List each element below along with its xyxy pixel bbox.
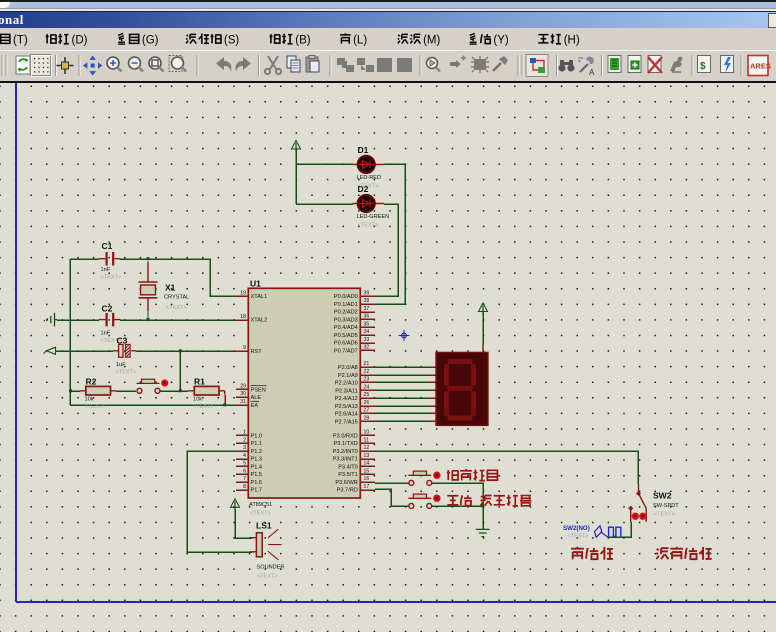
U1 right pin stubs	[360, 296, 375, 490]
pulse generator SW2(NO)	[595, 526, 621, 538]
svg-text:30: 30	[240, 391, 246, 397]
svg-text:29: 29	[240, 383, 246, 389]
wire key1 to ground rail	[432, 483, 483, 529]
svg-text:14: 14	[364, 461, 370, 467]
menu item (S)	[186, 33, 221, 44]
push button (reset)	[137, 379, 160, 393]
D1 TEXT placeholder	[358, 183, 379, 189]
wire SW2 NO throw to pulse source	[608, 522, 631, 537]
svg-text:P1.1: P1.1	[251, 441, 263, 447]
svg-text:P3.3/INT1: P3.3/INT1	[333, 457, 358, 463]
value R2 10k	[85, 397, 94, 403]
svg-text:P3.2/INT0: P3.2/INT0	[333, 449, 358, 455]
tool: zoom area	[149, 57, 164, 72]
LED D1	[353, 156, 385, 173]
svg-text:19: 19	[240, 290, 246, 296]
wire P1.2 to sounder bottom	[187, 451, 252, 552]
tool: decompose	[493, 56, 508, 71]
svg-text:25: 25	[364, 392, 370, 398]
wire key2 to ground rail	[432, 505, 483, 507]
svg-text:SW2(NO): SW2(NO)	[563, 525, 590, 532]
SW2(NO) TEXT placeholder	[568, 534, 589, 540]
tool: packaging	[471, 56, 489, 73]
tool: block delete	[397, 58, 412, 72]
svg-text:P2.0/A8: P2.0/A8	[338, 365, 358, 371]
label SW2(NO)	[563, 525, 590, 532]
capacitor C2	[99, 313, 121, 327]
svg-text:U1: U1	[250, 279, 261, 289]
junction reset row	[179, 389, 182, 392]
wire VCC to D2 anode	[296, 203, 353, 205]
svg-text:P3.1/TXD: P3.1/TXD	[334, 441, 358, 447]
tool: block move	[357, 58, 374, 72]
menu item (H)	[538, 34, 561, 44]
tool: electrical rule check	[721, 56, 734, 74]
svg-text:23: 23	[364, 377, 370, 383]
label X1	[165, 283, 176, 293]
tool: cut	[265, 56, 281, 74]
tool: paste	[306, 56, 319, 73]
svg-text:C2: C2	[102, 304, 113, 314]
wire left rail	[69, 259, 71, 405]
label R2	[86, 377, 97, 387]
U1 TEXT placeholder	[250, 511, 271, 517]
R2 TEXT placeholder	[85, 404, 106, 410]
ground (C2 side, pointing left)	[44, 313, 57, 327]
wire R1 down to EA row	[224, 395, 226, 405]
svg-text:10k: 10k	[193, 397, 202, 403]
wire P3.6 to key1	[375, 482, 409, 484]
svg-text:(D): (D)	[72, 35, 88, 47]
window top black edge	[0, 0, 776, 2]
value X1 CRYSTAL	[164, 295, 189, 301]
svg-text:13: 13	[364, 453, 370, 459]
svg-text:9: 9	[243, 345, 246, 351]
svg-text:16: 16	[364, 476, 370, 482]
wire 7seg pin stub 6	[429, 412, 436, 414]
svg-text:P0.2/AD2: P0.2/AD2	[334, 310, 358, 316]
svg-text:P1.2: P1.2	[251, 449, 263, 455]
svg-text:<TEXT>: <TEXT>	[654, 512, 675, 518]
svg-text:39: 39	[364, 290, 370, 296]
resistor R1	[188, 386, 225, 395]
red text: liquid present	[571, 547, 613, 560]
wire RST to reset-row vertical	[179, 351, 181, 391]
tool: netlist to ARES	[748, 56, 771, 76]
svg-text:P1.7: P1.7	[251, 488, 263, 494]
wire 7seg pin stub 3	[429, 389, 436, 391]
svg-text:P3.4/T0: P3.4/T0	[338, 464, 358, 470]
svg-text:37: 37	[364, 306, 370, 312]
wire 7seg pin stub 1	[429, 374, 436, 376]
label R1	[194, 377, 205, 387]
tool: bill of materials	[698, 56, 711, 73]
svg-text:33: 33	[364, 337, 370, 343]
label D2	[358, 184, 369, 194]
wire VCC to D1 anode	[296, 163, 353, 165]
wire P2.0 to 7seg	[375, 366, 429, 368]
svg-text:31: 31	[240, 399, 246, 405]
junction crystal top / C1 net	[147, 257, 150, 260]
value R1 10k	[193, 397, 202, 403]
U1 left pin numbers	[240, 290, 246, 489]
svg-text:P0.4/AD4: P0.4/AD4	[334, 325, 358, 331]
svg-text:ARES: ARES	[750, 62, 771, 71]
tool: undo	[216, 57, 231, 72]
wire 7seg pin stub 7	[429, 420, 436, 422]
C2 TEXT placeholder	[101, 338, 122, 344]
op-amp U1 body (microcontroller AT89C51)	[248, 288, 360, 498]
actuator dot set-time key	[433, 472, 440, 479]
value C2 1nF	[101, 331, 111, 337]
label C3	[117, 336, 128, 346]
tool: zoom in	[107, 57, 122, 72]
wire P2.3 to 7seg	[375, 389, 429, 391]
value SOUNDER	[257, 565, 285, 571]
svg-text:AT89C51: AT89C51	[249, 502, 272, 508]
svg-text:P1.6: P1.6	[251, 480, 263, 486]
ground (keys)	[476, 529, 490, 536]
editor top edge	[0, 81, 776, 83]
wire P2.2 to 7seg	[375, 381, 429, 383]
tool: redraw	[16, 56, 30, 74]
svg-text:(G): (G)	[142, 35, 159, 47]
svg-text:LS1: LS1	[256, 521, 272, 531]
tool: make device	[450, 56, 466, 69]
junction crystal bottom / C2 net	[147, 318, 150, 321]
value C1 1nF	[101, 267, 111, 273]
svg-text:PSEN: PSEN	[251, 387, 266, 393]
svg-text:P0.3/AD3: P0.3/AD3	[334, 317, 358, 323]
speaker LS1	[250, 529, 282, 560]
tool: goto sheet	[670, 57, 682, 72]
svg-text:P2.6/A14: P2.6/A14	[335, 412, 358, 418]
tool: toggle grid (pressed)	[31, 55, 52, 77]
svg-text:(B): (B)	[295, 35, 311, 47]
wire reset button to R1	[160, 390, 188, 392]
red text: no liquid	[656, 547, 711, 560]
svg-text:(S): (S)	[224, 35, 240, 47]
U1 right pin numbers	[364, 290, 370, 489]
toolbar	[0, 50, 776, 82]
tool: zoom all	[169, 56, 186, 72]
svg-text:P2.3/A11: P2.3/A11	[335, 388, 358, 394]
svg-text:(Y): (Y)	[493, 35, 509, 47]
label SW2	[653, 491, 672, 501]
capacitor C1	[99, 252, 121, 266]
tool: block copy	[337, 58, 354, 72]
wire D1 cathode to U1 pin38	[375, 164, 405, 304]
svg-text:P2.1/A9: P2.1/A9	[338, 373, 358, 379]
svg-text:8: 8	[243, 484, 246, 490]
svg-text:4: 4	[243, 453, 246, 459]
resistor R2	[80, 386, 116, 395]
menu item (D)	[46, 34, 69, 44]
value AT89C51	[249, 502, 272, 508]
label C2	[102, 304, 113, 314]
value LED-GREEN	[357, 214, 390, 220]
wire rail to R2	[70, 390, 80, 392]
push button start/stop key	[408, 494, 431, 508]
tool: pick parts	[427, 58, 441, 72]
wire C2 to XTAL2 pin18	[120, 319, 248, 321]
svg-text:P0.1/AD1: P0.1/AD1	[334, 302, 358, 308]
label D1	[358, 145, 369, 155]
wire VCC to 7seg	[482, 312, 484, 345]
svg-text:34: 34	[364, 329, 370, 335]
tool: remove sheet	[648, 56, 662, 74]
svg-text:27: 27	[364, 408, 370, 414]
value LED-RED	[357, 175, 382, 181]
label C1	[102, 241, 113, 251]
svg-text:1nF: 1nF	[101, 267, 111, 273]
svg-text:2: 2	[243, 437, 246, 443]
toolbar grip	[2, 55, 3, 76]
wire P3.2 to SW2 common	[375, 451, 638, 484]
wire C3 to RST pin9	[136, 350, 248, 352]
background window strip	[0, 2, 776, 8]
svg-text:<TEXT>: <TEXT>	[166, 305, 187, 311]
actuator dot start/stop key	[433, 495, 440, 502]
svg-text:<TEXT>: <TEXT>	[116, 369, 137, 375]
svg-text:<TEXT>: <TEXT>	[193, 404, 214, 410]
svg-text:SW2: SW2	[653, 491, 672, 501]
tool: wire autorouter (pressed)	[526, 55, 548, 77]
svg-text:<TEXT>: <TEXT>	[568, 534, 589, 540]
svg-text:6: 6	[243, 468, 246, 474]
svg-text:11: 11	[364, 437, 369, 443]
svg-text:1uF: 1uF	[116, 362, 126, 368]
svg-text:<TEXT>: <TEXT>	[101, 275, 122, 281]
svg-text:P3.7/RD: P3.7/RD	[337, 488, 358, 494]
svg-text:$: $	[700, 61, 706, 72]
svg-text:P0.5/AD5: P0.5/AD5	[334, 333, 358, 339]
menu item (L)	[340, 33, 351, 43]
svg-text:<TEXT>: <TEXT>	[250, 511, 271, 517]
title bar	[0, 11, 776, 30]
svg-text:XTAL2: XTAL2	[251, 318, 268, 324]
red text: start stop alarm	[447, 495, 531, 506]
svg-text:P2.4/A12: P2.4/A12	[335, 396, 358, 402]
svg-text:P3.0/RXD: P3.0/RXD	[333, 433, 358, 439]
svg-text:1: 1	[243, 430, 246, 436]
svg-text:XTAL1: XTAL1	[251, 294, 268, 300]
svg-text:P1.5: P1.5	[251, 472, 263, 478]
svg-text:36: 36	[364, 314, 370, 320]
SW2 TEXT placeholder	[654, 512, 675, 518]
svg-text:<TEXT>: <TEXT>	[257, 574, 278, 580]
7-segment display	[436, 352, 488, 425]
svg-text:<TEXT>: <TEXT>	[85, 404, 106, 410]
tool: zoom out	[129, 57, 144, 72]
junction RST net	[179, 349, 182, 352]
titlebar right button (cut)	[768, 13, 776, 28]
tool: design explorer	[608, 56, 621, 73]
wire 7seg pin stub 4	[429, 397, 436, 399]
C1 TEXT placeholder	[101, 275, 122, 281]
tool: property assignment	[578, 57, 595, 77]
svg-text:(T): (T)	[13, 35, 28, 47]
wire rail to EA pin31	[70, 404, 248, 406]
menu item (Y)	[470, 33, 491, 44]
svg-text:38: 38	[364, 298, 370, 304]
svg-text:12: 12	[364, 445, 370, 451]
svg-text:10k: 10k	[85, 397, 94, 403]
svg-text:R2: R2	[86, 377, 97, 387]
svg-text:26: 26	[364, 400, 370, 406]
label U1	[250, 279, 261, 289]
wire 7seg pin stub 2	[429, 381, 436, 383]
menu item (M)	[398, 34, 421, 43]
svg-text:7: 7	[243, 476, 246, 482]
svg-text:C1: C1	[102, 241, 113, 251]
tool: block rotate	[377, 58, 392, 72]
D2 TEXT placeholder	[358, 223, 379, 229]
R1 TEXT placeholder	[193, 404, 214, 410]
sheet border left	[15, 83, 17, 602]
reset button actuator dot	[161, 379, 168, 386]
svg-text:15: 15	[364, 468, 370, 474]
tool: pan	[83, 56, 102, 76]
svg-text:P1.3: P1.3	[251, 457, 263, 463]
wire VCC to sounder top	[235, 509, 252, 538]
svg-text:SW-SPDT: SW-SPDT	[653, 503, 679, 509]
SW2 actuator dots	[632, 513, 647, 520]
LS1 TEXT placeholder	[257, 574, 278, 580]
svg-text:5: 5	[243, 461, 246, 467]
U1 left pin names	[251, 294, 268, 493]
sheet border bottom	[16, 601, 776, 603]
svg-text:P3.6/WR: P3.6/WR	[335, 480, 357, 486]
power terminal 7seg VCC	[479, 303, 488, 314]
7seg top pin stub	[482, 345, 484, 353]
svg-text:P2.2/A10: P2.2/A10	[335, 381, 358, 387]
svg-text:P2.7/A15: P2.7/A15	[335, 419, 358, 425]
LED D2	[353, 195, 385, 212]
power terminal sounder VCC	[231, 499, 240, 510]
wire 7seg pin stub 0	[429, 366, 436, 368]
svg-text:LED-GREEN: LED-GREEN	[357, 214, 390, 220]
tool: redo	[236, 57, 251, 72]
svg-text:P1.0: P1.0	[251, 433, 263, 439]
svg-text:22: 22	[364, 369, 370, 375]
svg-text:SOUNDER: SOUNDER	[257, 565, 285, 571]
junction key2 / ground net	[481, 504, 484, 507]
wire D2 cathode to U1 pin39	[375, 204, 398, 296]
wire P3.7 to key2	[375, 489, 409, 506]
label LS1	[256, 521, 272, 531]
editor cursor marker	[399, 330, 410, 341]
svg-text:P1.4: P1.4	[251, 464, 263, 470]
C3 TEXT placeholder	[116, 369, 137, 375]
U1 right pin names	[333, 294, 358, 493]
crystal X1	[139, 262, 158, 320]
wire RST terminal to C3	[56, 350, 113, 352]
svg-text:10: 10	[364, 430, 370, 436]
wire P2.6 to 7seg	[375, 412, 429, 414]
menu bar	[0, 28, 776, 50]
menu item (T)	[0, 34, 10, 43]
wire R2 to reset button	[116, 390, 136, 392]
svg-text:35: 35	[364, 321, 370, 327]
svg-text:P0.7/AD7: P0.7/AD7	[334, 348, 358, 354]
svg-text:X1: X1	[165, 283, 176, 293]
svg-text:D1: D1	[358, 145, 369, 155]
svg-text:32: 32	[364, 345, 370, 351]
svg-text:RST: RST	[251, 349, 263, 355]
svg-text:ALE: ALE	[251, 395, 262, 401]
svg-text:3: 3	[243, 445, 246, 451]
svg-text:(H): (H)	[564, 35, 580, 47]
red text: set time	[447, 469, 498, 481]
wire P2.1 to 7seg	[375, 374, 429, 376]
junction R1 / EA net	[223, 403, 226, 406]
menu item (B)	[270, 34, 293, 44]
wire P2.5 to 7seg	[375, 405, 429, 407]
wire P2.7 to 7seg	[375, 420, 429, 422]
svg-text:24: 24	[364, 384, 370, 390]
junction rail / R2	[69, 389, 72, 392]
tool: search	[558, 60, 574, 72]
svg-text:P0.6/AD6: P0.6/AD6	[334, 341, 358, 347]
wire C1 left	[70, 258, 99, 260]
wire 7seg pin stub 5	[429, 405, 436, 407]
svg-text:28: 28	[364, 415, 370, 421]
value C3 1uF	[116, 362, 126, 368]
svg-text:CRYSTAL: CRYSTAL	[164, 295, 189, 301]
svg-text:R1: R1	[194, 377, 205, 387]
capacitor C3	[113, 344, 136, 357]
tool: copy	[287, 56, 300, 72]
X1 TEXT placeholder	[166, 305, 187, 311]
value SW-SPDT	[653, 503, 679, 509]
tool: new sheet	[628, 56, 641, 73]
wire C1 to XTAL1 pin19	[120, 259, 248, 296]
wire LED VCC rail vertical	[295, 149, 297, 204]
svg-text:21: 21	[364, 361, 370, 367]
svg-text:<TEXT>: <TEXT>	[358, 223, 379, 229]
switch SW2	[628, 484, 646, 522]
U1 left pin stubs	[236, 296, 249, 490]
svg-text:(L): (L)	[353, 35, 367, 47]
menu item (G)	[118, 33, 139, 44]
svg-text:EA: EA	[251, 403, 259, 409]
svg-text:17: 17	[364, 484, 370, 490]
input terminal (RST, pointing left)	[44, 347, 56, 354]
svg-text:P3.5/T1: P3.5/T1	[338, 472, 358, 478]
power terminal LED rail VCC	[292, 141, 301, 152]
svg-text:D2: D2	[358, 184, 369, 194]
svg-text:(M): (M)	[423, 35, 440, 47]
svg-text:LED-RED: LED-RED	[357, 175, 382, 181]
wire P2.4 to 7seg	[375, 397, 429, 399]
wire ground to C2	[57, 319, 99, 321]
svg-text:A: A	[589, 68, 595, 77]
tool: origin	[57, 57, 74, 74]
svg-text:18: 18	[240, 314, 246, 320]
svg-text:1nF: 1nF	[101, 331, 111, 337]
push button set-time key	[408, 471, 431, 485]
svg-text:P2.5/A13: P2.5/A13	[335, 404, 358, 410]
svg-text:P0.0/AD0: P0.0/AD0	[334, 294, 358, 300]
svg-text:C3: C3	[117, 336, 128, 346]
